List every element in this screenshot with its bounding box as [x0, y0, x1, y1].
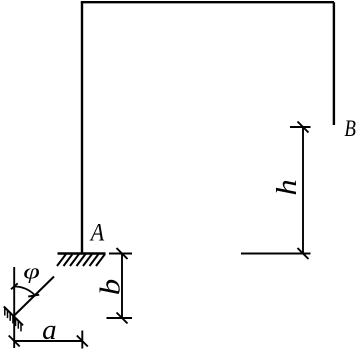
svg-text:h: h: [271, 179, 302, 195]
dimension h top tick: [290, 126, 311, 128]
svg-text:A: A: [89, 219, 105, 247]
dimension a horizontal line: [14, 340, 82, 342]
svg-text:b: b: [95, 279, 126, 296]
dimension b bottom tick: [107, 317, 133, 319]
dimension b top slash arrow: [117, 248, 128, 259]
dimension h top slash arrow: [298, 122, 309, 133]
dimension h bottom slash arrow: [298, 248, 309, 259]
ground hatching at A: [57, 254, 105, 266]
dimension h bottom line: [241, 253, 311, 255]
svg-text:B: B: [344, 115, 356, 141]
angle phi arc end slash arrow: [28, 295, 39, 297]
dimension a right slash arrow: [77, 336, 88, 347]
launcher vertical reference line: [13, 267, 15, 348]
svg-text:φ: φ: [23, 259, 40, 283]
dimension b vertical line: [121, 254, 123, 319]
wire: left wall vertical line: [81, 2, 83, 253]
dimension a left slash arrow: [9, 336, 20, 347]
dimension h vertical line: [302, 127, 304, 254]
ground line at A: [58, 252, 106, 254]
angle phi arc start slash arrow: [11, 283, 18, 289]
wire: right wall vertical line: [333, 2, 335, 125]
launcher inclined barrel line: [14, 277, 54, 316]
angle phi arc: [14, 287, 35, 296]
launcher support surface line: [4, 307, 23, 326]
wire: top horizontal line: [81, 1, 334, 3]
dimension a right tick: [81, 331, 83, 349]
launcher support hatching: [5, 308, 21, 332]
dimension b bottom slash arrow: [117, 313, 128, 324]
svg-text:a: a: [42, 314, 57, 346]
dimension b top tick: [109, 253, 132, 255]
